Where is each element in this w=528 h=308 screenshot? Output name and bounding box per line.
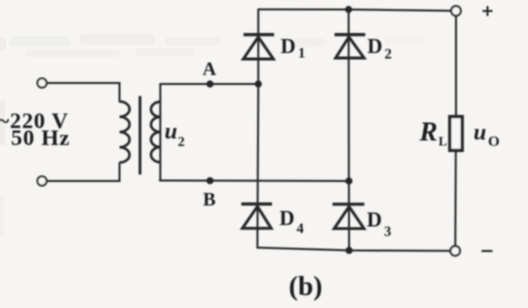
wire bottom-left terminal to transformer primary: [48, 163, 120, 181]
svg-text:D: D: [281, 34, 296, 58]
plus sign: [483, 6, 493, 16]
svg-text:A: A: [203, 59, 217, 80]
svg-text:4: 4: [297, 221, 304, 237]
junction dot B to bridge: [345, 177, 352, 184]
wire node B to bridge: [160, 180, 349, 183]
wire top rail: [258, 9, 451, 10]
svg-text:50 Hz: 50 Hz: [11, 125, 70, 150]
svg-text:(b): (b): [289, 270, 323, 301]
wire secondary vertical A-to-B: [159, 84, 161, 181]
diode D1 symbol: [243, 35, 274, 59]
wire plus terminal to resistor: [455, 16, 457, 115]
transformer secondary winding: [151, 102, 160, 162]
junction dot A to bridge: [255, 80, 262, 87]
diode D2 symbol: [335, 35, 366, 58]
svg-text:3: 3: [384, 224, 391, 240]
svg-text:L: L: [439, 134, 448, 149]
svg-text:2: 2: [178, 135, 185, 150]
junction dot node B: [206, 177, 213, 184]
junction dot bottom rail D3: [346, 247, 353, 254]
svg-text:2: 2: [385, 47, 392, 63]
svg-text:D: D: [367, 207, 382, 231]
diode D3 symbol: [333, 204, 365, 228]
svg-text:u: u: [474, 119, 487, 144]
junction dot node A: [206, 80, 213, 87]
terminal circle top-left: [37, 78, 46, 87]
transformer primary winding: [120, 102, 130, 163]
transformer core: [139, 96, 142, 175]
terminal circle plus output: [451, 6, 461, 16]
wire top-left terminal to transformer primary: [48, 83, 120, 102]
svg-text:B: B: [203, 190, 216, 211]
svg-text:O: O: [488, 134, 500, 150]
svg-text:R: R: [419, 117, 438, 147]
svg-text:D: D: [367, 34, 382, 58]
svg-text:u: u: [165, 119, 178, 144]
junction dot top rail D2: [345, 6, 352, 13]
wire bottom rail: [257, 248, 450, 251]
wire bridge right vertical: [348, 10, 351, 251]
svg-text:1: 1: [298, 46, 305, 62]
svg-text:D: D: [279, 206, 294, 230]
wire bridge left vertical: [256, 9, 259, 247]
terminal circle minus output: [450, 246, 460, 256]
diode D4 symbol: [241, 204, 272, 228]
wire node A to bridge: [160, 83, 258, 85]
resistor RL body: [450, 117, 462, 151]
terminal circle bottom-left: [37, 176, 46, 185]
wire resistor to minus terminal: [454, 152, 457, 246]
minus sign: [482, 250, 493, 252]
